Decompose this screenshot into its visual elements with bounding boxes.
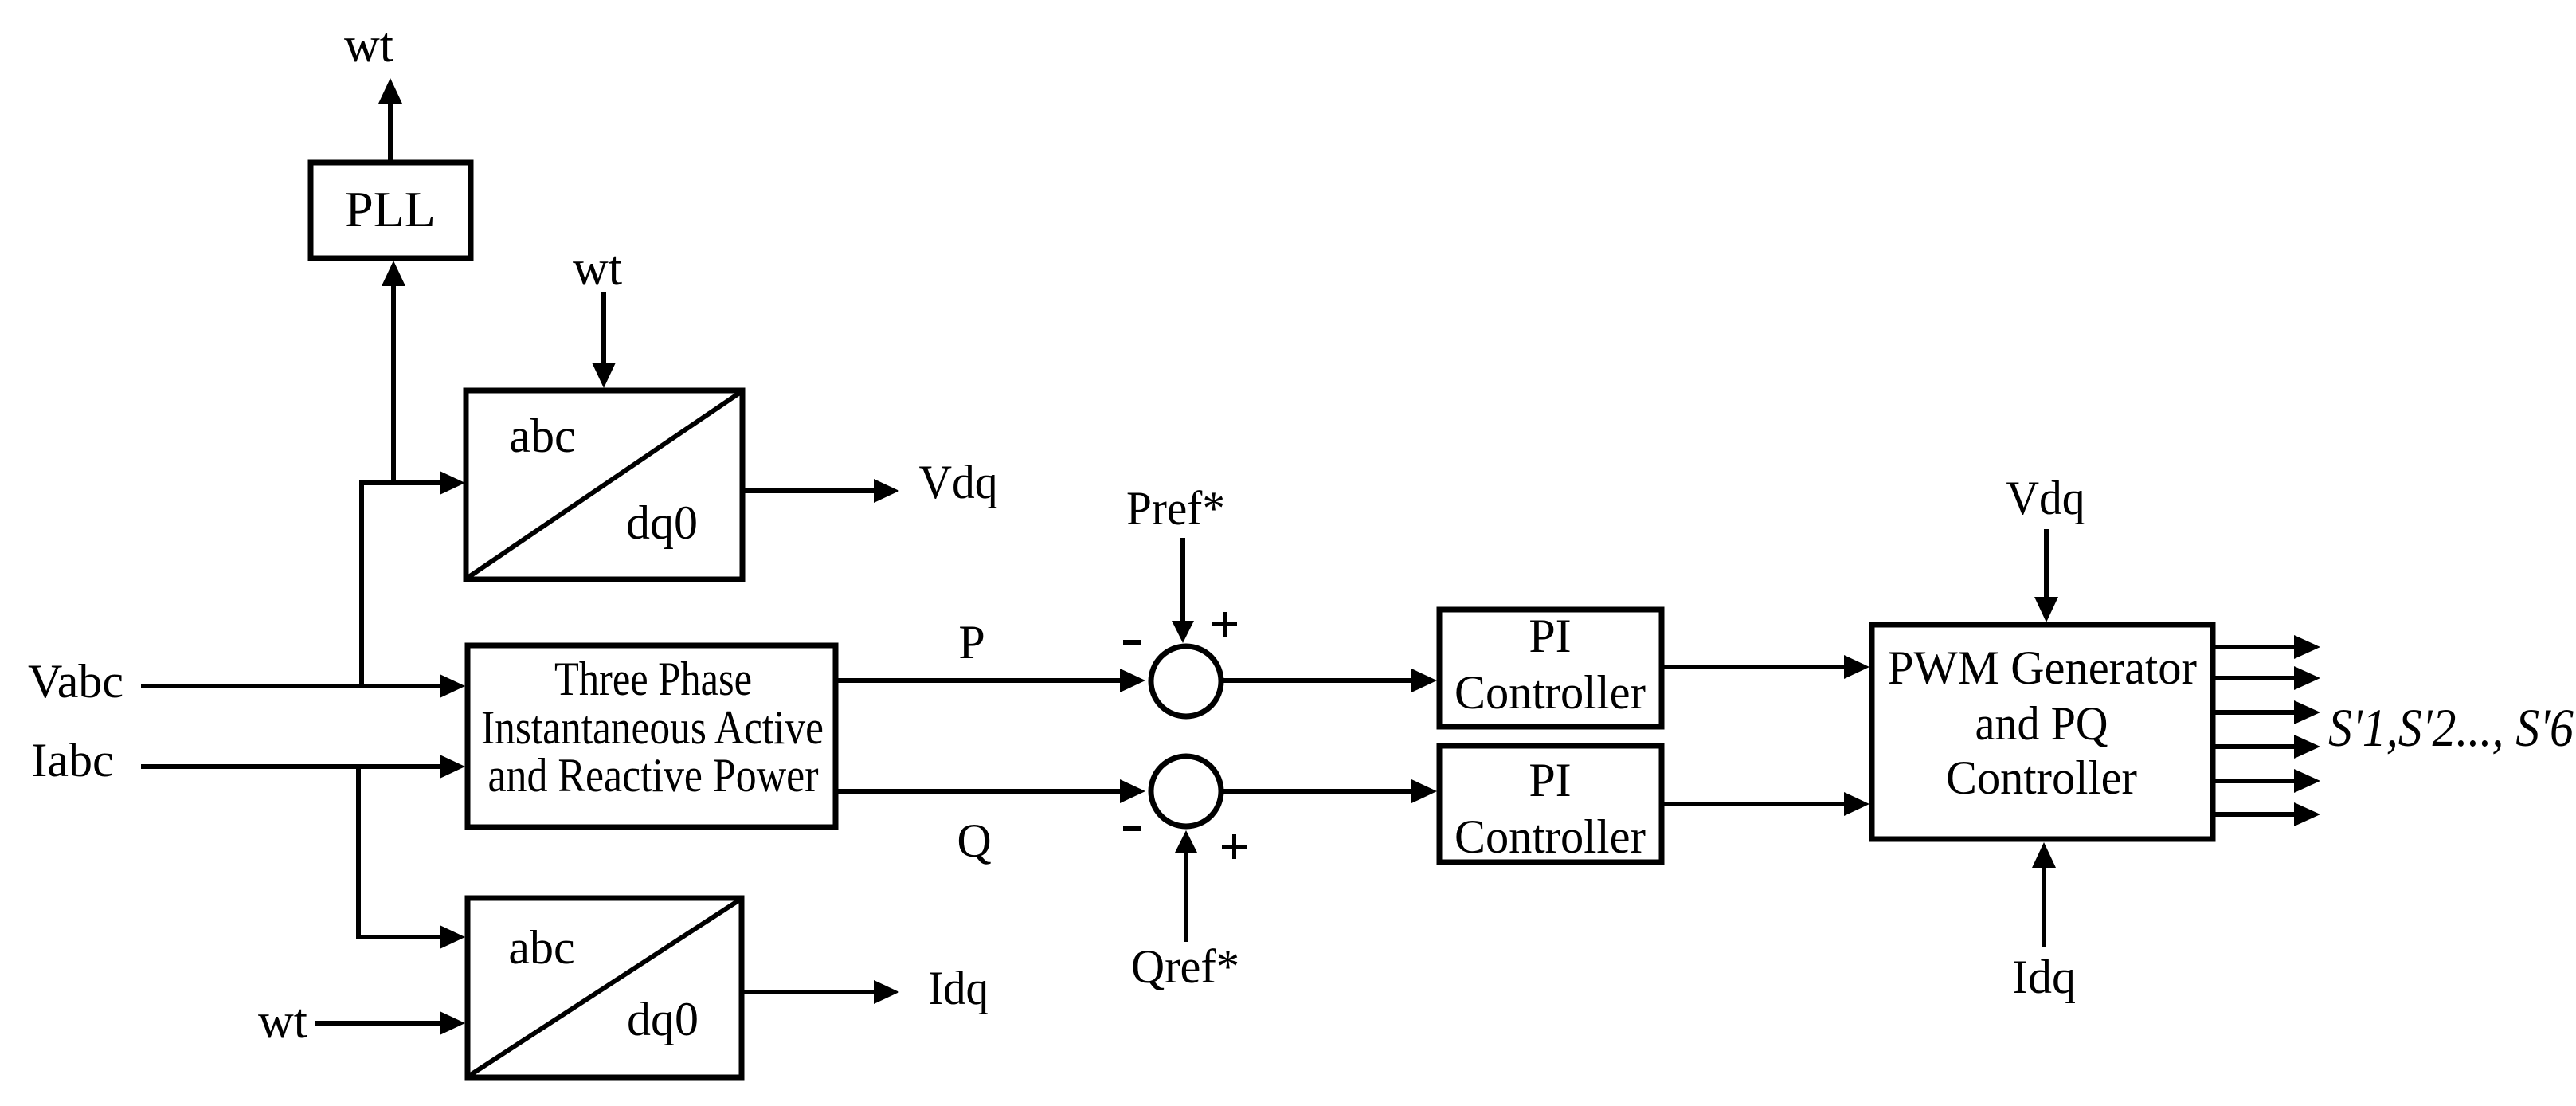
block Three Phase Instantaneous Active and Reactive Power <box>468 645 836 827</box>
node S1 plus sign <box>1212 612 1237 637</box>
wire U1 output Vdq <box>742 479 899 503</box>
block abc-dq0 current transform U2 <box>468 898 742 1077</box>
wire PLL input from Vabc branch <box>382 261 405 483</box>
svg-text:Idq: Idq <box>2012 951 2076 1003</box>
svg-text:Three Phase: Three Phase <box>554 653 752 705</box>
svg-text:PWM Generator: PWM Generator <box>1888 641 2197 694</box>
wire Vabc vertical branch up <box>359 483 364 688</box>
wire U2 output Idq <box>742 980 899 1004</box>
svg-text:Idq: Idq <box>928 962 989 1014</box>
svg-text:and Reactive Power: and Reactive Power <box>488 749 819 802</box>
wire PWM output S1 arrow <box>2215 635 2320 659</box>
wire PWM output S4 arrow <box>2215 735 2320 759</box>
svg-text:Controller: Controller <box>1946 751 2137 804</box>
wire Pref* arrow down into summer S1 <box>1172 538 1194 643</box>
block PI controller 2 <box>1439 746 1662 863</box>
wire branch into U2 left <box>356 925 465 949</box>
wire PI1 to PWM block <box>1662 655 1869 679</box>
summing junction S1 <box>1151 646 1221 716</box>
svg-text:Q: Q <box>957 814 991 867</box>
node S2 plus sign <box>1222 834 1247 859</box>
svg-text:wt: wt <box>573 241 622 296</box>
wire PWM output S2 arrow <box>2215 666 2320 690</box>
wire PI2 to PWM block <box>1662 792 1869 816</box>
svg-text:Vdq: Vdq <box>919 456 998 508</box>
wire S1 to PI controller 1 <box>1223 669 1437 692</box>
svg-text:Iabc: Iabc <box>31 734 113 786</box>
wire Qref* arrow up into summer S2 <box>1175 830 1197 942</box>
wire wt arrow into U1 top <box>592 292 616 388</box>
wire wt into U2 left <box>315 1011 465 1035</box>
wire Idq arrow into PWM bottom <box>2032 842 2056 947</box>
svg-text:Vabc: Vabc <box>28 655 123 708</box>
wire PWM output S6 arrow <box>2215 802 2320 826</box>
wire Iabc vertical branch down <box>356 764 361 937</box>
svg-text:Instantaneous Active: Instantaneous Active <box>481 701 824 754</box>
wire PWM output S3 arrow <box>2215 700 2320 724</box>
wire S2 to PI controller 2 <box>1223 779 1437 803</box>
wire Iabc main line <box>141 755 465 779</box>
svg-text:PLL: PLL <box>345 181 436 237</box>
svg-text:S'1,S'2..., S'6: S'1,S'2..., S'6 <box>2328 697 2574 758</box>
block PLL <box>311 163 471 258</box>
wire branch into U1 left <box>359 471 465 495</box>
svg-text:abc: abc <box>509 410 575 462</box>
block PI controller 1 <box>1439 610 1662 727</box>
svg-text:PI: PI <box>1529 610 1571 662</box>
summing junction S2 <box>1151 756 1221 826</box>
wire Q output to summing junction <box>836 779 1145 803</box>
svg-text:Controller: Controller <box>1454 810 1646 863</box>
svg-text:Pref*: Pref* <box>1126 482 1225 535</box>
svg-text:wt: wt <box>258 994 307 1049</box>
wire PLL output wt <box>378 78 402 165</box>
block abc-dq0 voltage transform U1 <box>466 390 742 579</box>
svg-text:abc: abc <box>508 921 574 974</box>
svg-text:Qref*: Qref* <box>1131 940 1239 993</box>
svg-text:dq0: dq0 <box>626 496 698 549</box>
svg-text:and PQ: and PQ <box>1975 697 2108 750</box>
svg-text:wt: wt <box>344 18 393 73</box>
wire Vabc main line <box>141 674 465 698</box>
svg-text:dq0: dq0 <box>627 993 699 1045</box>
svg-text:Controller: Controller <box>1454 666 1646 719</box>
wire P output to summing junction <box>836 669 1145 692</box>
wire PWM output S5 arrow <box>2215 769 2320 793</box>
wire Vdq arrow into PWM top <box>2034 529 2058 622</box>
svg-text:PI: PI <box>1529 754 1571 806</box>
node S1 minus sign <box>1123 640 1141 645</box>
svg-text:P: P <box>958 616 985 669</box>
block PWM Generator and PQ Controller <box>1872 625 2213 839</box>
node S2 minus sign <box>1123 826 1141 831</box>
svg-text:Vdq: Vdq <box>2006 472 2085 524</box>
